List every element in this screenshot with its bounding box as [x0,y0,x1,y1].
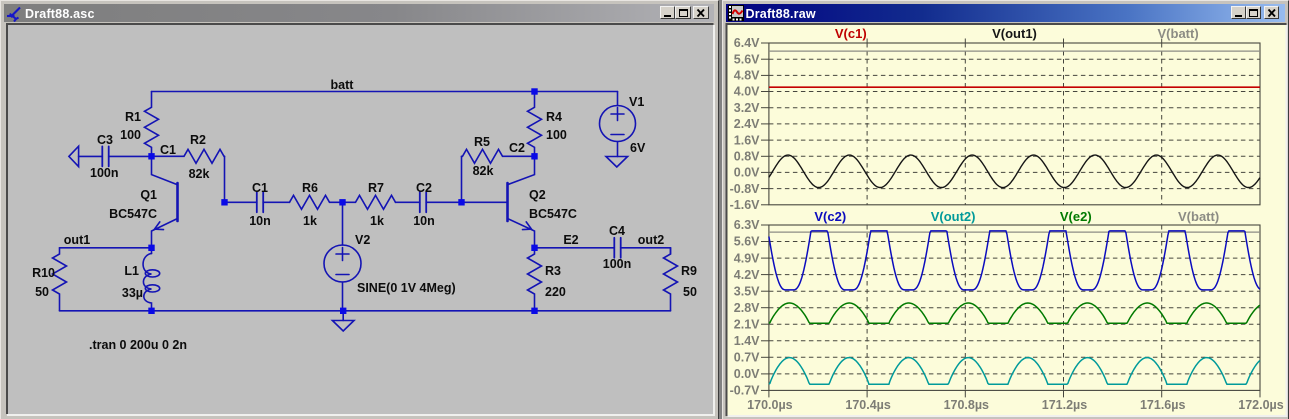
svg-text:10n: 10n [249,214,271,228]
svg-text:0.7V: 0.7V [733,351,759,365]
svg-text:2.8V: 2.8V [733,301,759,315]
svg-text:C2: C2 [509,141,525,155]
svg-text:2.1V: 2.1V [733,317,759,331]
svg-text:R2: R2 [190,133,206,147]
svg-text:Q2: Q2 [529,188,546,202]
svg-text:V1: V1 [629,95,644,109]
svg-text:C2: C2 [416,181,432,195]
svg-text:172.0µs: 172.0µs [1238,398,1283,412]
svg-text:2.4V: 2.4V [733,117,759,131]
svg-text:V(c2): V(c2) [814,209,846,224]
svg-text:6V: 6V [630,141,646,155]
svg-text:1.6V: 1.6V [733,133,759,147]
svg-text:0.8V: 0.8V [733,150,759,164]
svg-text:V2: V2 [355,233,370,247]
svg-text:C3: C3 [97,133,113,147]
svg-text:batt: batt [331,78,355,92]
svg-text:L1: L1 [124,264,139,278]
svg-text:6.4V: 6.4V [733,36,759,50]
svg-text:171.6µs: 171.6µs [1139,398,1184,412]
svg-text:C4: C4 [609,224,625,238]
svg-text:4.8V: 4.8V [733,69,759,83]
svg-text:V(batt): V(batt) [1157,26,1198,41]
svg-text:R6: R6 [302,181,318,195]
svg-text:R5: R5 [474,135,490,149]
svg-text:100n: 100n [90,166,119,180]
svg-text:3.2V: 3.2V [733,101,759,115]
svg-text:1.4V: 1.4V [733,334,759,348]
svg-text:C1: C1 [252,181,268,195]
svg-text:out2: out2 [638,233,664,247]
svg-text:R1: R1 [125,110,141,124]
svg-text:4.2V: 4.2V [733,268,759,282]
svg-text:E2: E2 [563,233,578,247]
svg-text:170.0µs: 170.0µs [747,398,792,412]
svg-text:V(out2): V(out2) [930,209,975,224]
svg-text:1k: 1k [370,214,384,228]
svg-text:V(out1): V(out1) [992,26,1037,41]
svg-text:82k: 82k [473,164,494,178]
svg-text:170.8µs: 170.8µs [943,398,988,412]
svg-text:out1: out1 [64,233,90,247]
svg-text:100: 100 [120,128,141,142]
svg-text:50: 50 [35,285,49,299]
svg-text:3.5V: 3.5V [733,284,759,298]
svg-text:220: 220 [545,285,566,299]
svg-text:6.3V: 6.3V [733,218,759,232]
svg-text:5.6V: 5.6V [733,52,759,66]
svg-text:4.0V: 4.0V [733,85,759,99]
svg-text:1k: 1k [303,214,317,228]
svg-text:10n: 10n [413,214,435,228]
svg-text:BC547C: BC547C [529,207,577,221]
svg-text:V(batt): V(batt) [1178,209,1219,224]
svg-text:170.4µs: 170.4µs [845,398,890,412]
svg-text:50: 50 [683,285,697,299]
svg-text:5.6V: 5.6V [733,235,759,249]
svg-text:V(c1): V(c1) [834,26,866,41]
svg-text:-1.6V: -1.6V [729,198,760,212]
svg-text:82k: 82k [189,167,210,181]
svg-text:4.9V: 4.9V [733,251,759,265]
svg-text:171.2µs: 171.2µs [1041,398,1086,412]
svg-text:R7: R7 [368,181,384,195]
svg-text:0.0V: 0.0V [733,367,759,381]
svg-text:100: 100 [546,128,567,142]
svg-text:R10: R10 [32,266,55,280]
svg-text:0.0V: 0.0V [733,166,759,180]
svg-text:33µ: 33µ [122,286,143,300]
svg-text:-0.8V: -0.8V [729,182,760,196]
svg-text:R3: R3 [545,264,561,278]
svg-text:R9: R9 [681,264,697,278]
svg-text:C1: C1 [160,143,176,157]
svg-text:100n: 100n [603,257,632,271]
svg-text:.tran 0 200u 0 2n: .tran 0 200u 0 2n [89,338,187,352]
svg-text:-0.7V: -0.7V [729,384,760,398]
svg-text:SINE(0 1V 4Meg): SINE(0 1V 4Meg) [357,281,456,295]
svg-text:Q1: Q1 [140,188,157,202]
svg-text:R4: R4 [546,110,562,124]
svg-text:BC547C: BC547C [109,207,157,221]
svg-text:V(e2): V(e2) [1059,209,1091,224]
